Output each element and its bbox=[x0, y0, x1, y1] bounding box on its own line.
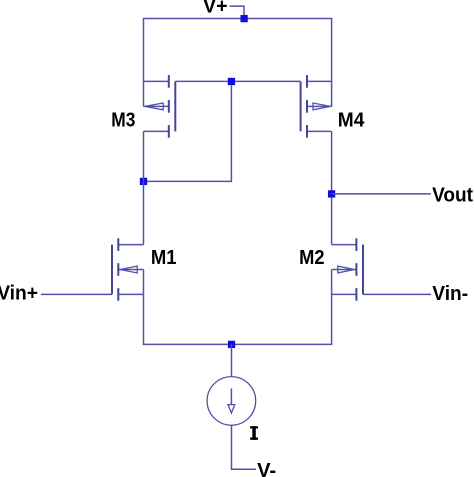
M2 source stub bbox=[332, 293, 357, 295]
M4 bulk stub bbox=[307, 105, 332, 107]
wire M3 drain to M1 drain bbox=[143, 131, 145, 244]
M2 bulk-source tie bbox=[331, 270, 333, 295]
M2 bulk arrow bbox=[338, 266, 355, 273]
M3 drain stub bbox=[144, 130, 169, 132]
M3 gate bar bbox=[174, 81, 176, 131]
svg-text:Vin+: Vin+ bbox=[0, 283, 38, 305]
junction node Vout bbox=[328, 190, 335, 197]
junction node tail bbox=[228, 341, 235, 348]
M1 channel segments bbox=[117, 238, 119, 251]
label I bbox=[250, 426, 258, 440]
wire current source to V- bbox=[232, 425, 257, 469]
M1 drain stub bbox=[118, 244, 143, 246]
wire Vin- to M2 gate bbox=[363, 293, 431, 295]
M4 drain stub bbox=[307, 130, 332, 132]
M2 bulk stub bbox=[332, 269, 357, 271]
svg-text:V+: V+ bbox=[203, 0, 228, 18]
junction node at M3/M1 drains bbox=[140, 178, 147, 185]
M3 bulk stub bbox=[144, 105, 169, 107]
M2 drain stub bbox=[332, 244, 357, 246]
wire tail rail (M1/M2 sources to tail node) bbox=[144, 294, 332, 344]
M1 bulk stub bbox=[118, 269, 143, 271]
M1 bulk arrow bbox=[120, 266, 137, 273]
svg-text:V-: V- bbox=[257, 460, 276, 477]
M4 bulk arrow bbox=[313, 103, 331, 110]
svg-text:M3: M3 bbox=[111, 109, 135, 131]
wire diode connection (gate bus to M3 drain) bbox=[144, 85, 232, 181]
M1 bulk-source tie bbox=[143, 270, 145, 295]
current source I bbox=[207, 377, 256, 426]
M1 source stub bbox=[118, 293, 143, 295]
M3 channel segments bbox=[168, 75, 170, 88]
wire Vout bbox=[332, 193, 431, 195]
pmos M3 bbox=[144, 75, 176, 138]
nmos M1 bbox=[112, 238, 144, 300]
wire V+ rail bbox=[144, 19, 332, 107]
svg-text:M4: M4 bbox=[338, 109, 365, 131]
svg-text:M2: M2 bbox=[299, 247, 324, 269]
M2 gate bar bbox=[362, 245, 364, 295]
svg-text:M1: M1 bbox=[151, 247, 177, 269]
M2 channel segments bbox=[355, 238, 357, 251]
M3 bulk arrow bbox=[145, 103, 164, 110]
svg-text:Vin-: Vin- bbox=[432, 283, 468, 305]
M1 gate bar bbox=[111, 245, 113, 295]
wire Vin+ to M1 gate bbox=[41, 293, 112, 295]
junction node on V+ rail bbox=[240, 15, 247, 22]
M4 channel segments bbox=[306, 75, 308, 88]
M4 source stub bbox=[307, 80, 332, 82]
nmos M2 bbox=[332, 238, 363, 300]
M3 source stub bbox=[144, 80, 169, 82]
M4 gate bar bbox=[300, 81, 302, 131]
wire tail node to current source bbox=[231, 344, 233, 376]
wire gate bus M3-M4 bbox=[175, 80, 300, 82]
pmos M4 bbox=[301, 75, 332, 138]
wire V+ tap bbox=[230, 6, 245, 18]
svg-text:Vout: Vout bbox=[432, 184, 473, 206]
junction node on gate bus bbox=[228, 78, 235, 85]
wire M4 drain to M2 drain bbox=[331, 131, 333, 244]
